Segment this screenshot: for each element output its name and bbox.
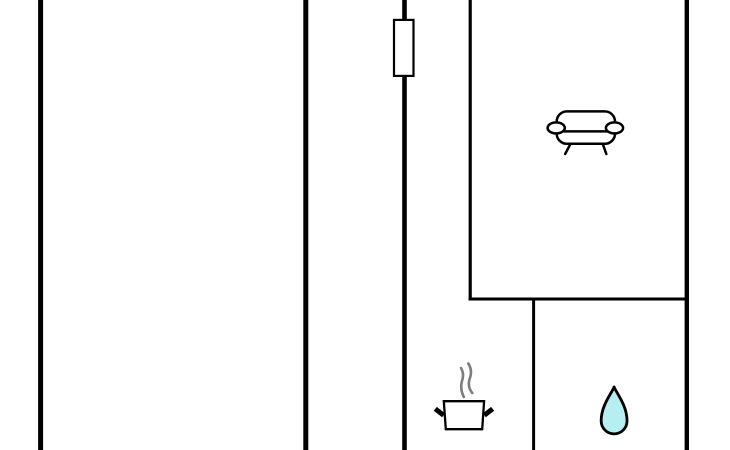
wall third vertical (with window): [402, 0, 407, 450]
interior wall vertical lower (bath left edge): [532, 298, 535, 450]
wall left outer: [38, 0, 43, 450]
interior wall horizontal (living room bottom): [469, 298, 689, 301]
stove / cooking pot icon: [435, 364, 492, 430]
water drop icon: [601, 387, 627, 434]
sofa icon: [548, 111, 624, 153]
interior wall vertical upper (living room left edge): [469, 0, 472, 301]
wall right outer: [685, 0, 689, 450]
window symbol on third wall: [394, 20, 414, 76]
wall second vertical: [303, 0, 308, 450]
